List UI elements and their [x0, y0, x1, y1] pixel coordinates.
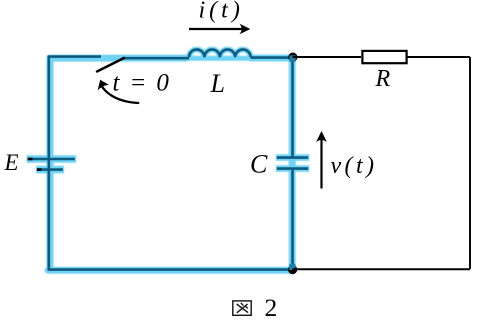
- wire top-left segment: [49, 55, 101, 56]
- wire switch-to-inductor: [122, 57, 189, 60]
- inductor L coil arcs: [189, 50, 251, 58]
- wire node-to-resistor (black): [293, 56, 362, 58]
- svg-text:L: L: [210, 69, 225, 98]
- capacitor C glow: top plate: [276, 154, 309, 161]
- wire: blue glow halo of E-L-C loop: [27, 50, 310, 271]
- voltage arrow v(t): [316, 131, 327, 189]
- resistor R box: [362, 51, 406, 63]
- caption: 図 glyph drawn as SVG: [233, 301, 251, 315]
- svg-text:v(t): v(t): [331, 153, 378, 179]
- wire right vertical (black): [469, 57, 471, 269]
- battery E short plate: [37, 168, 63, 171]
- capacitor C bottom plate: [277, 167, 308, 170]
- battery E short plate black tip: [37, 168, 42, 171]
- wire left vertical: [47, 56, 50, 270]
- node bottom junction: [288, 265, 297, 274]
- wire: glow under inductor: [186, 56, 252, 61]
- capacitor C glow: bottom plate: [276, 165, 309, 172]
- current arrow i(t): [189, 24, 250, 35]
- wire inductor-to-node: [251, 56, 293, 59]
- wire glow: left vertical and top run to inductor: [50, 58, 186, 270]
- capacitor C top plate: [277, 156, 308, 159]
- svg-text:i(t): i(t): [199, 0, 244, 24]
- wire glow: bottom run: [48, 267, 292, 274]
- wire bottom: [48, 268, 293, 271]
- wire C branch lower: [291, 170, 294, 270]
- battery E glow: short plate: [36, 166, 64, 174]
- switch blade: [97, 58, 124, 72]
- battery E glow: long plate: [27, 155, 77, 163]
- switch closing arc arrow (t=0): [98, 80, 139, 103]
- battery E long plate black tip: [28, 158, 33, 161]
- battery E long plate: [28, 158, 75, 161]
- wire: dark core strokes of loop: [28, 50, 308, 270]
- svg-text:t = 0: t = 0: [113, 69, 171, 96]
- wire bottom right (black): [293, 268, 471, 270]
- wire glow: capacitor branch vertical: [289, 58, 296, 271]
- svg-text:E: E: [4, 150, 19, 175]
- svg-text:R: R: [375, 66, 391, 92]
- svg-text:2: 2: [265, 293, 278, 322]
- wire glow: inductor to node A: [251, 55, 293, 62]
- svg-text:C: C: [250, 150, 268, 179]
- node top junction: [288, 53, 297, 62]
- inductor glow arcs: [189, 50, 251, 58]
- wire resistor-to-corner (black): [408, 56, 471, 58]
- wire C branch upper: [291, 56, 294, 157]
